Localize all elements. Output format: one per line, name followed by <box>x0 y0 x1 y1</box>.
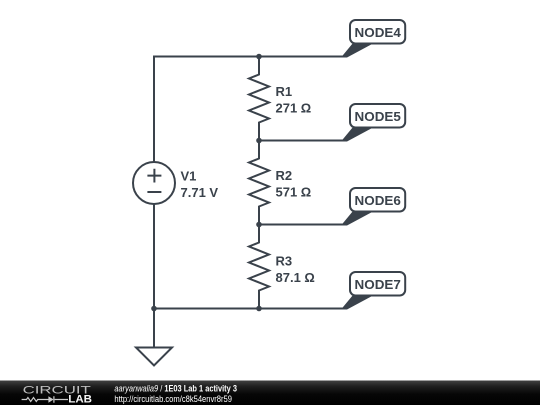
wire: bottom node down to ground <box>153 309 155 348</box>
junction dot between R1 and R2 (NODE5 net) <box>256 138 262 144</box>
label V1 name and value (V1, 7.71 V) <box>181 169 219 201</box>
resistor R1 <box>249 57 269 141</box>
node flag NODE6 <box>341 188 405 226</box>
voltage source V1 <box>133 162 175 204</box>
svg-text:NODE7: NODE7 <box>355 277 401 292</box>
svg-text:NODE6: NODE6 <box>355 193 401 208</box>
wire: top horizontal from V1 column to NODE4 tail <box>154 56 347 58</box>
label R3 name and value (R3, 87.1 Ω) <box>276 254 315 286</box>
label R2 name and value (R2, 571 Ω) <box>276 168 312 200</box>
svg-text:NODE4: NODE4 <box>355 25 402 40</box>
resistor R2 <box>249 141 269 225</box>
wire: bottom horizontal from ground node to NODE7 tail <box>154 308 347 310</box>
node flag NODE5 <box>341 104 405 142</box>
svg-text:7.71 V: 7.71 V <box>181 185 219 200</box>
wire: NODE6 horizontal from resistor column <box>259 224 347 226</box>
junction dot at bottom-left node <box>151 306 157 312</box>
wire: NODE5 horizontal from resistor column <box>259 140 347 142</box>
svg-text:571 Ω: 571 Ω <box>276 185 312 200</box>
resistor R3 <box>249 225 269 309</box>
wire: left vertical from top wire down to V1 positive terminal <box>153 56 155 163</box>
junction dot between R2 and R3 (NODE6 net) <box>256 222 262 228</box>
svg-text:R1: R1 <box>276 84 293 99</box>
svg-text:aaryanwalia9 / 1E03 Lab 1 acti: aaryanwalia9 / 1E03 Lab 1 activity 3 <box>114 384 237 394</box>
node flag NODE4 <box>341 20 405 58</box>
wire: V1 negative terminal down to bottom node <box>153 204 155 309</box>
svg-text:87.1 Ω: 87.1 Ω <box>276 270 315 285</box>
svg-text:NODE5: NODE5 <box>355 109 401 124</box>
junction dot at bottom node (NODE7 net) <box>256 306 262 312</box>
svg-text:V1: V1 <box>181 169 197 184</box>
svg-text:271 Ω: 271 Ω <box>276 101 312 116</box>
svg-text:http://circuitlab.com/c8k54env: http://circuitlab.com/c8k54envr8r59 <box>114 394 232 404</box>
svg-text:R3: R3 <box>276 254 293 269</box>
ground symbol <box>136 348 172 366</box>
junction dot at top node (NODE4 net) <box>256 54 262 60</box>
node flag NODE7 <box>341 272 405 310</box>
label R1 name and value (R1, 271 Ω) <box>276 84 312 116</box>
svg-text:R2: R2 <box>276 168 293 183</box>
svg-text:LAB: LAB <box>68 394 92 405</box>
CircuitLab logo: resistor squiggle and diode <box>22 396 68 402</box>
